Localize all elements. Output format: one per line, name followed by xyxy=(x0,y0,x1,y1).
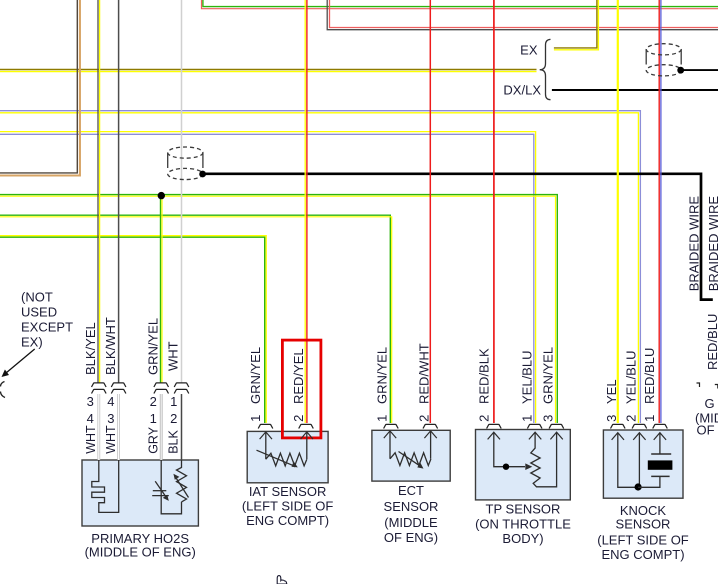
svg-text:1: 1 xyxy=(642,415,657,422)
svg-text:1: 1 xyxy=(170,394,177,409)
svg-text:WHT: WHT xyxy=(84,425,98,454)
svg-text:TP SENSOR: TP SENSOR xyxy=(486,502,561,517)
svg-text:ENG COMPT): ENG COMPT) xyxy=(601,547,684,562)
svg-text:(ON THROTTLE: (ON THROTTLE xyxy=(475,517,571,532)
svg-text:3: 3 xyxy=(541,415,556,422)
svg-text:GRN/YEL: GRN/YEL xyxy=(375,347,390,404)
svg-text:DX/LX: DX/LX xyxy=(503,83,541,98)
svg-text:2: 2 xyxy=(170,411,177,426)
svg-text:ECT: ECT xyxy=(398,483,424,498)
svg-text:(MIDDLE: (MIDDLE xyxy=(384,515,438,530)
svg-text:YEL: YEL xyxy=(604,379,619,404)
svg-text:EX: EX xyxy=(520,43,538,58)
svg-text:GRN/YEL: GRN/YEL xyxy=(541,347,556,404)
svg-text:SENSOR: SENSOR xyxy=(384,499,439,514)
svg-text:1: 1 xyxy=(248,415,263,422)
svg-text:BRAIDED WIRE: BRAIDED WIRE xyxy=(687,196,702,292)
svg-text:OF: OF xyxy=(697,423,715,438)
svg-text:BLK/YEL: BLK/YEL xyxy=(83,322,98,375)
svg-text:YEL/BLU: YEL/BLU xyxy=(623,351,638,404)
svg-text:GRN/YEL: GRN/YEL xyxy=(145,318,160,375)
svg-text:2: 2 xyxy=(150,394,157,409)
svg-text:1: 1 xyxy=(519,415,534,422)
svg-text:BLK/WHT: BLK/WHT xyxy=(103,317,118,375)
svg-text:2: 2 xyxy=(623,415,638,422)
svg-text:IAT SENSOR: IAT SENSOR xyxy=(249,484,327,499)
svg-text:WHT: WHT xyxy=(166,341,181,371)
svg-text:2: 2 xyxy=(417,415,432,422)
svg-text:3: 3 xyxy=(107,411,114,426)
svg-text:WHT: WHT xyxy=(104,425,118,454)
svg-text:3: 3 xyxy=(87,394,94,409)
svg-text:BRAIDED WIRE: BRAIDED WIRE xyxy=(706,196,718,292)
svg-text:ENG COMPT): ENG COMPT) xyxy=(246,513,329,528)
svg-text:2: 2 xyxy=(477,415,492,422)
svg-text:RED/BLU: RED/BLU xyxy=(705,314,718,370)
svg-text:4: 4 xyxy=(87,411,94,426)
svg-text:RED/YEL: RED/YEL xyxy=(291,348,306,404)
svg-text:SENSOR: SENSOR xyxy=(616,517,671,532)
svg-text:4: 4 xyxy=(107,394,114,409)
svg-text:G: G xyxy=(705,396,715,411)
svg-text:(NOT: (NOT xyxy=(21,290,53,305)
svg-text:RED/WHT: RED/WHT xyxy=(417,343,432,404)
svg-text:GRY: GRY xyxy=(146,426,160,454)
svg-text:3: 3 xyxy=(604,415,619,422)
svg-text:(LEFT SIDE OF: (LEFT SIDE OF xyxy=(597,533,689,548)
svg-text:OF ENG): OF ENG) xyxy=(384,530,438,545)
svg-text:BODY): BODY) xyxy=(502,531,543,546)
svg-text:EX): EX) xyxy=(21,335,43,350)
svg-text:(LEFT SIDE OF: (LEFT SIDE OF xyxy=(242,499,334,514)
svg-text:(MIDDLE OF ENG): (MIDDLE OF ENG) xyxy=(85,545,196,560)
svg-text:RED/BLK: RED/BLK xyxy=(477,348,492,404)
svg-text:YEL/BLU: YEL/BLU xyxy=(519,351,534,404)
svg-text:GRN/YEL: GRN/YEL xyxy=(248,347,263,404)
svg-text:RED/BLU: RED/BLU xyxy=(642,348,657,404)
svg-text:EXCEPT: EXCEPT xyxy=(21,320,73,335)
svg-text:1: 1 xyxy=(150,411,157,426)
svg-text:BLK: BLK xyxy=(167,430,181,454)
svg-text:2: 2 xyxy=(291,415,306,422)
svg-text:USED: USED xyxy=(21,305,57,320)
svg-text:1: 1 xyxy=(375,415,390,422)
